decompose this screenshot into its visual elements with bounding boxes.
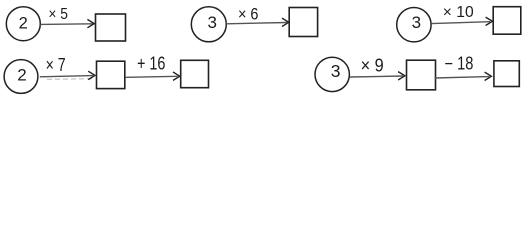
- svg-text:× 6: × 6: [238, 6, 259, 24]
- answer box 5b: [494, 61, 519, 87]
- circle input "3": [315, 57, 349, 91]
- wire arrow shaft ×9: [350, 76, 403, 77]
- scan echo line: [47, 78, 93, 81]
- wire arrow shaft ×5: [40, 23, 92, 26]
- wire arrow shaft +16: [125, 76, 178, 77]
- wire arrow shaft ×10: [432, 22, 490, 24]
- answer box 1: [96, 14, 126, 41]
- arrowhead: [173, 72, 180, 80]
- wire arrow shaft −18: [435, 77, 490, 78]
- circle input "3": [397, 8, 431, 42]
- svg-text:2: 2: [17, 66, 26, 85]
- wire arrow shaft ×7: [40, 76, 93, 77]
- svg-text:3: 3: [412, 13, 421, 32]
- arrowhead: [87, 19, 94, 27]
- circle input "2": [6, 7, 40, 41]
- svg-text:× 7: × 7: [46, 55, 66, 75]
- arrowhead: [88, 71, 95, 79]
- answer box 4b: [181, 60, 209, 87]
- svg-text:× 10: × 10: [443, 4, 474, 21]
- wire arrow shaft ×6: [226, 23, 287, 24]
- svg-text:× 5: × 5: [48, 6, 68, 23]
- svg-text:× 9: × 9: [361, 54, 384, 75]
- answer box 4a: [97, 61, 125, 88]
- svg-text:3: 3: [331, 61, 341, 81]
- answer box 3: [493, 7, 521, 35]
- circle input "3": [191, 7, 226, 42]
- svg-text:2: 2: [19, 15, 28, 33]
- svg-text:− 18: − 18: [445, 54, 474, 74]
- answer box 2: [289, 8, 317, 37]
- svg-text:3: 3: [207, 13, 216, 32]
- arrowhead: [486, 17, 493, 25]
- circle input "2": [4, 60, 38, 94]
- arrowhead: [485, 72, 492, 80]
- arrowhead: [282, 18, 289, 26]
- answer box 5a: [407, 60, 436, 90]
- svg-text:+ 16: + 16: [137, 54, 166, 74]
- arrowhead: [398, 72, 405, 80]
